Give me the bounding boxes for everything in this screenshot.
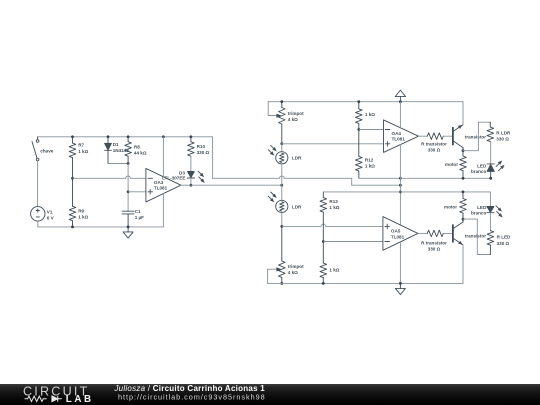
op-amp OA3 TL081 — [146, 168, 181, 202]
wire OA3 non-inverting input — [128, 191, 146, 193]
svg-text:R12: R12 — [365, 158, 374, 163]
resistor R LED 330 — [487, 231, 511, 255]
svg-text:TL081: TL081 — [154, 186, 168, 191]
node C1-noninv junction — [127, 190, 130, 193]
resistor R13 1k — [320, 192, 340, 242]
diode D1 1N4148 — [105, 137, 130, 164]
node C1-bottom rail — [127, 226, 130, 229]
svg-text:330 Ω: 330 Ω — [428, 147, 441, 152]
svg-text:OA5: OA5 — [391, 229, 401, 234]
node D1-R8 junction — [127, 162, 130, 165]
svg-text:Juliosza / Circuito Carrinho A: Juliosza / Circuito Carrinho Acionas 1 — [113, 384, 265, 393]
node rail-trimpot1 — [280, 100, 283, 103]
svg-text:44 kΩ: 44 kΩ — [134, 151, 147, 156]
svg-text:330 Ω: 330 Ω — [197, 150, 210, 155]
svg-text:LED: LED — [477, 163, 487, 168]
wire junction to LDR2 — [281, 185, 283, 200]
wire switch to V1 — [37, 161, 39, 207]
wire OA4 V+ pin — [399, 102, 401, 129]
svg-text:R9: R9 — [78, 208, 84, 213]
resistor R8 44k — [125, 137, 147, 164]
node transistor-motor-RLDR junction — [462, 149, 465, 152]
power supply arrow VCC — [395, 90, 405, 102]
node rail-R8 — [127, 135, 130, 138]
node motor2-transistor-RLED junction — [462, 218, 465, 221]
wire LDR2 to tap — [281, 213, 283, 227]
node D3-output junction — [190, 184, 193, 187]
wire rail corner to transistor collector — [462, 102, 464, 125]
wire supply from left rail to right — [213, 137, 401, 185]
node rail-R7 — [71, 135, 74, 138]
svg-text:branco: branco — [471, 169, 487, 174]
svg-text:R transistor: R transistor — [421, 141, 447, 146]
wire OA4 V- pin through to OA5 V+ — [399, 145, 401, 225]
node LDR2-trimpot2 tap — [280, 225, 283, 228]
wire to transistor2 base — [443, 232, 453, 234]
svg-text:LTL-307EE: LTL-307EE — [162, 176, 185, 181]
svg-text:trimpot: trimpot — [288, 264, 304, 269]
op-amp OA4 TL081 — [384, 120, 419, 152]
CircuitLab logo text LAB — [66, 394, 94, 405]
svg-text:TL081: TL081 — [391, 234, 405, 239]
node R9-bottom rail — [71, 226, 74, 229]
photoresistor LDR1 — [268, 145, 302, 164]
svg-text:R transistor: R transistor — [421, 240, 447, 245]
wire R LDR to LED1 — [490, 142, 492, 164]
CircuitLab logo text CIRCUIT — [23, 384, 89, 398]
wire bottom rail left section — [38, 226, 164, 228]
wire D1 to R8 — [108, 163, 128, 165]
trimpot 4k upper — [276, 102, 304, 144]
svg-text:1 kΩ: 1 kΩ — [329, 205, 339, 210]
resistor R transistor upper 330 — [421, 133, 447, 152]
svg-text:R7: R7 — [78, 143, 84, 148]
transistor lower NPN — [453, 214, 486, 246]
svg-text:6 V: 6 V — [47, 215, 55, 220]
wire OA4 non-inverting input — [282, 143, 384, 145]
svg-text:1 kΩ: 1 kΩ — [78, 149, 88, 154]
svg-text:D1: D1 — [113, 142, 119, 147]
svg-text:motor: motor — [444, 204, 457, 209]
svg-text:transistor: transistor — [465, 134, 486, 139]
node rail-R10 — [190, 135, 193, 138]
wire supply rail right to LED1 — [400, 177, 490, 179]
node trimpot1-LDR1 tap — [280, 142, 283, 145]
svg-text:http://circuitlab.com/c93v85rn: http://circuitlab.com/c93v85rnskh98 — [118, 393, 266, 402]
svg-text:chave: chave — [40, 149, 53, 154]
wire bottom rail right section — [268, 282, 463, 284]
footer title Juliosza / Circuito Carrinho Acionas 1 — [113, 384, 265, 393]
motor lower (resistor symbol) — [444, 192, 466, 222]
svg-text:1 kΩ: 1 kΩ — [78, 214, 88, 219]
node motor1-supply rail — [462, 177, 465, 180]
node OA5 V- bottom rail — [399, 282, 402, 285]
resistor R12 1k — [355, 130, 375, 179]
node OA3 output to LDR chain — [280, 184, 283, 187]
wire OA3 V+ pin — [162, 137, 164, 177]
svg-text:1 kΩ: 1 kΩ — [365, 112, 375, 117]
wire OA5 inverting input — [323, 241, 383, 243]
node VCC-rail — [399, 100, 402, 103]
svg-text:OA4: OA4 — [392, 131, 402, 136]
svg-text:TL081: TL081 — [392, 137, 406, 142]
wire top rail middle section — [268, 101, 463, 103]
CircuitLab logo resistor-diode symbol — [25, 396, 62, 402]
node rail-D1 — [107, 135, 110, 138]
svg-text:330 Ω: 330 Ω — [497, 241, 510, 246]
footer bar — [0, 384, 540, 405]
motor upper (resistor symbol) — [445, 151, 466, 179]
svg-text:330 Ω: 330 Ω — [428, 246, 441, 251]
op-amp OA5 TL081 — [383, 217, 418, 251]
ground below C1 — [123, 227, 133, 238]
svg-text:4 kΩ: 4 kΩ — [288, 270, 298, 275]
svg-text:branco: branco — [471, 210, 487, 215]
wire OA3 V- pin — [162, 194, 164, 227]
node rail-1k upper — [357, 100, 360, 103]
svg-text:LED: LED — [477, 205, 487, 210]
wire mid rail R13 to LED2 — [323, 191, 490, 193]
resistor R7 1k — [69, 137, 88, 179]
voltage source V1 6V — [31, 207, 55, 221]
capacitor C1 1uF — [122, 209, 144, 227]
switch SW1 chave — [32, 137, 54, 161]
wire transistor2 emitter to bottom rail — [462, 245, 464, 284]
LED branco upper — [471, 159, 506, 178]
wire OA4 output — [419, 135, 428, 137]
svg-text:motor: motor — [445, 162, 458, 167]
node trimpot2-bottom rail — [280, 282, 283, 285]
wire OA3 inverting input — [73, 176, 146, 178]
resistor R10 330 — [188, 137, 210, 156]
footer url — [118, 393, 266, 402]
svg-text:1 µF: 1 µF — [135, 215, 144, 220]
wire top rail left section — [38, 136, 213, 138]
svg-text:R13: R13 — [329, 199, 338, 204]
svg-text:4 kΩ: 4 kΩ — [288, 117, 298, 122]
node supply rail mid junction — [399, 191, 402, 194]
transistor upper NPN — [453, 123, 486, 150]
photoresistor LDR2 — [268, 192, 302, 212]
wire R8 junction down to C1 — [127, 164, 129, 212]
node rail-OA3 V+ — [162, 135, 165, 138]
svg-text:R10: R10 — [197, 144, 206, 149]
svg-text:1 kΩ: 1 kΩ — [365, 164, 375, 169]
wire R12 to supply rail — [359, 177, 401, 179]
svg-text:R LDR: R LDR — [496, 130, 511, 135]
wire OA4 inverting input — [359, 129, 384, 131]
svg-text:R LED: R LED — [497, 235, 511, 240]
LED branco lower — [471, 205, 504, 219]
svg-text:330 Ω: 330 Ω — [496, 137, 509, 142]
node R13-1k-OA5 inv junction — [322, 240, 325, 243]
wire mid rail corner to LED2 — [489, 192, 491, 207]
svg-text:C1: C1 — [135, 209, 141, 214]
wire D3 cathode to output — [190, 178, 192, 185]
wire LDR1 down to junction — [281, 164, 283, 185]
svg-text:LAB: LAB — [66, 394, 94, 405]
svg-text:trimpot: trimpot — [288, 111, 304, 116]
svg-text:OA3: OA3 — [154, 180, 164, 185]
wire OA5 non-inverting input — [282, 224, 383, 226]
node motor2-mid rail — [462, 191, 465, 194]
node supply wire to op-amp rail — [399, 184, 402, 187]
resistor 1k upper-middle — [355, 102, 375, 130]
svg-text:1 kΩ: 1 kΩ — [329, 267, 339, 272]
LED D3 LTL-307EE — [162, 170, 206, 184]
svg-text:R8: R8 — [134, 144, 140, 149]
wire OA3 output — [181, 184, 282, 186]
wire R10 to D3 — [190, 156, 192, 171]
resistor R transistor lower 330 — [421, 230, 447, 251]
wire to transistor1 base — [443, 135, 453, 137]
svg-text:LDR: LDR — [292, 204, 302, 209]
wire trimpot2 wiper — [268, 269, 277, 283]
resistor R9 1k — [69, 178, 88, 227]
node LED1-supply rail end — [489, 177, 492, 180]
wire trimpot1 wiper — [268, 102, 276, 116]
resistor R LDR 330 — [487, 122, 511, 141]
resistor 1k lower-middle — [320, 242, 340, 284]
wire OA5 output — [418, 232, 427, 234]
node R7-R9-opamp junction — [71, 177, 74, 180]
wire to R LDR — [463, 122, 490, 151]
wire V1 to bottom rail — [37, 221, 39, 227]
trimpot 4k lower — [276, 226, 304, 283]
wire OA5 V- pin — [399, 242, 401, 283]
node R12 wire to op-amp rail — [399, 177, 402, 180]
wire LED2 to R LED — [489, 213, 491, 231]
svg-text:LDR: LDR — [292, 156, 302, 161]
node 1k lower-bottom rail — [322, 282, 325, 285]
wire to R LED — [463, 219, 490, 254]
node 1k-R12-OA4 inv junction — [357, 128, 360, 131]
svg-text:V1: V1 — [47, 209, 53, 214]
svg-text:D3: D3 — [179, 170, 185, 175]
ground bottom rail — [395, 283, 405, 294]
svg-text:transistor: transistor — [465, 234, 486, 239]
wire tap to LDR1 — [281, 144, 283, 152]
